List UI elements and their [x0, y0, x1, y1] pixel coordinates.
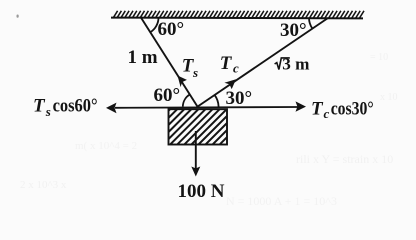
- angle arc 60 deg at junction: [183, 94, 190, 106]
- angle arc 30 deg at ceiling: [309, 18, 313, 29]
- svg-text:N = 1000 A + 1 = 10^3: N = 1000 A + 1 = 10^3: [226, 194, 337, 208]
- block (hatched weight): [169, 109, 228, 144]
- svg-text:= 10: = 10: [370, 52, 388, 63]
- label Ts: [182, 56, 198, 81]
- ceiling hatching: [113, 11, 364, 18]
- label 60 deg at ceiling: [158, 19, 185, 40]
- svg-text:30°: 30°: [280, 20, 307, 41]
- svg-text:60°: 60°: [158, 19, 185, 40]
- svg-text:T: T: [311, 98, 324, 119]
- horizontal force line: [115, 106, 298, 109]
- label Tc cos30: [311, 98, 374, 121]
- label 100 N: [178, 181, 225, 202]
- svg-text:T: T: [220, 53, 233, 74]
- svg-text:c: c: [324, 106, 330, 121]
- svg-text:s: s: [192, 65, 198, 80]
- label 30 deg at junction: [226, 88, 253, 109]
- svg-text:c: c: [233, 60, 239, 75]
- svg-text:3 m: 3 m: [282, 55, 310, 74]
- string C (right, sqrt3 m): [198, 18, 329, 107]
- svg-text:cos60°: cos60°: [53, 95, 98, 116]
- string S (left, 1 m): [141, 18, 198, 107]
- svg-text:cos30°: cos30°: [331, 99, 374, 120]
- svg-text:s: s: [45, 104, 51, 119]
- faint bleed-through text artifacts: [20, 52, 398, 208]
- label 30 deg at ceiling: [280, 20, 307, 41]
- angle arc 60 deg at ceiling: [150, 18, 158, 32]
- label sqrt3 m: [275, 55, 310, 74]
- arrowhead Tc cos30 (right): [296, 101, 307, 111]
- angle arc 30 deg at junction: [215, 95, 219, 107]
- label Ts cos60: [33, 95, 98, 118]
- svg-text:100 N: 100 N: [178, 181, 225, 202]
- svg-text:T: T: [33, 95, 46, 116]
- page speck artifact: [17, 15, 138, 153]
- label 60 deg at junction: [154, 85, 181, 106]
- svg-text:rili x Y = strain x 10: rili x Y = strain x 10: [296, 152, 393, 166]
- svg-text:m( x 10^4 = 2: m( x 10^4 = 2: [75, 140, 137, 152]
- label Tc: [220, 53, 239, 75]
- svg-text:30°: 30°: [226, 88, 253, 109]
- svg-text:2 x 10^3 x: 2 x 10^3 x: [20, 179, 67, 191]
- svg-text:x 10: x 10: [380, 92, 398, 103]
- arrowhead Ts cos60 (left): [106, 103, 117, 114]
- svg-text:1 m: 1 m: [128, 47, 158, 68]
- label 1 m: [128, 47, 158, 68]
- weight arrow 100 N: [191, 131, 200, 177]
- ceiling line: [111, 17, 363, 20]
- svg-text:60°: 60°: [154, 85, 181, 106]
- tension arrowhead Tc on right string: [224, 79, 236, 89]
- tension arrowhead Ts on left string: [178, 76, 187, 88]
